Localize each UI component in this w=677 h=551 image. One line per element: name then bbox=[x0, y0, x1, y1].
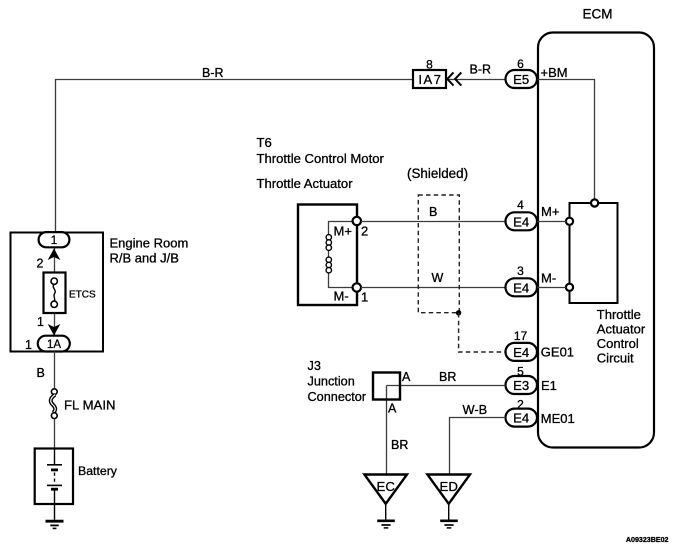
svg-text:W: W bbox=[432, 271, 444, 285]
connector E4 pin4 bbox=[506, 212, 538, 230]
connector oval 1 top bbox=[39, 232, 70, 247]
wire M- internal bbox=[537, 287, 566, 289]
svg-text:GE01: GE01 bbox=[541, 345, 574, 360]
svg-text:ETCS: ETCS bbox=[69, 290, 96, 301]
motor winding wire inside actuator bbox=[329, 222, 353, 288]
svg-text:1: 1 bbox=[51, 235, 57, 247]
arrow up bbox=[48, 249, 61, 261]
ground battery symbol bbox=[46, 521, 64, 528]
svg-text:B: B bbox=[429, 205, 437, 219]
svg-text:M+: M+ bbox=[541, 204, 559, 219]
throttle actuator box T6 bbox=[298, 205, 357, 306]
svg-text:ThrottleActuatorControlCircuit: ThrottleActuatorControlCircuit bbox=[597, 307, 646, 366]
fusible link FL MAIN bbox=[51, 389, 57, 419]
connector E4 pin17 bbox=[506, 343, 538, 361]
svg-text:17: 17 bbox=[514, 329, 528, 343]
svg-text:J3JunctionConnector: J3JunctionConnector bbox=[308, 359, 367, 404]
svg-text:1: 1 bbox=[361, 290, 368, 305]
terminal circle M- on control circuit box bbox=[566, 284, 573, 291]
ground ED symbol bbox=[440, 504, 458, 528]
svg-text:BR: BR bbox=[439, 370, 456, 384]
svg-text:T6Throttle Control Motor: T6Throttle Control Motor bbox=[257, 135, 385, 166]
svg-text:E5: E5 bbox=[513, 72, 529, 87]
svg-text:B-R: B-R bbox=[202, 66, 224, 80]
ground EC triangle bbox=[364, 475, 407, 504]
svg-text:ECM: ECM bbox=[583, 7, 613, 22]
svg-text:ED: ED bbox=[440, 479, 458, 494]
svg-text:1: 1 bbox=[37, 315, 44, 329]
terminal circle M+ on control circuit box bbox=[566, 218, 573, 225]
wire BR (J3 to E3) bbox=[387, 385, 506, 387]
battery cell symbol bbox=[47, 449, 62, 520]
wire A (J3 down to EC) bbox=[386, 386, 388, 475]
battery box bbox=[35, 449, 73, 505]
svg-text:4: 4 bbox=[517, 198, 524, 212]
svg-text:(Shielded): (Shielded) bbox=[407, 166, 468, 181]
svg-text:B: B bbox=[37, 366, 45, 380]
terminal 1 circle on actuator bbox=[353, 283, 361, 291]
ground ED triangle bbox=[427, 475, 470, 504]
svg-text:E4: E4 bbox=[513, 411, 529, 426]
engine room junction block box bbox=[11, 233, 104, 352]
shield drain dashed wire bbox=[459, 313, 506, 352]
wire FL MAIN to battery bbox=[54, 419, 56, 449]
shield junction dot bbox=[456, 310, 461, 315]
svg-text:E4: E4 bbox=[513, 345, 529, 360]
wire +BM internal bbox=[538, 80, 595, 200]
wire W-B (ED to E4) bbox=[450, 418, 506, 475]
connector E5 bbox=[506, 70, 538, 88]
svg-text:IA7: IA7 bbox=[418, 72, 442, 87]
wire M+ internal bbox=[537, 221, 566, 223]
shield dashed box bbox=[418, 195, 459, 313]
connector E3 pin5 bbox=[506, 376, 538, 394]
wire B (1A to FL MAIN) bbox=[54, 352, 56, 390]
terminal circle on top of control circuit box bbox=[591, 199, 598, 206]
connector oval 1A bbox=[38, 336, 70, 352]
svg-text:+BM: +BM bbox=[541, 65, 568, 80]
svg-text:2: 2 bbox=[37, 257, 44, 271]
svg-text:3: 3 bbox=[517, 264, 524, 278]
svg-text:EC: EC bbox=[377, 479, 396, 494]
svg-text:A: A bbox=[388, 402, 397, 416]
connector E4 pin3 bbox=[506, 278, 538, 296]
motor coil M1 bbox=[326, 235, 331, 273]
connector chevrons (male connector marks) bbox=[447, 72, 461, 85]
ECM box bbox=[538, 33, 654, 448]
svg-text:E1: E1 bbox=[541, 378, 557, 393]
svg-text:M+: M+ bbox=[334, 224, 352, 239]
svg-text:M-: M- bbox=[541, 271, 556, 286]
svg-text:M-: M- bbox=[334, 289, 349, 304]
wire B (actuator pin2 to E4) bbox=[361, 221, 506, 223]
svg-text:A: A bbox=[402, 370, 411, 384]
svg-text:BR: BR bbox=[391, 438, 408, 452]
svg-text:Engine RoomR/B and J/B: Engine RoomR/B and J/B bbox=[110, 236, 189, 266]
svg-text:1A: 1A bbox=[47, 339, 61, 351]
wire W (actuator pin1 to E4) bbox=[361, 287, 506, 289]
svg-text:ME01: ME01 bbox=[541, 411, 575, 426]
arrow down bbox=[48, 324, 61, 336]
wire B-R main horizontal (battery to IA7) bbox=[56, 80, 414, 233]
ground EC symbol bbox=[377, 504, 395, 528]
svg-text:E4: E4 bbox=[513, 214, 529, 229]
throttle actuator control circuit box U1 bbox=[570, 203, 618, 303]
fuse ETCS bbox=[44, 273, 66, 314]
svg-text:Throttle Actuator: Throttle Actuator bbox=[257, 176, 354, 191]
connector E4 pin2 bbox=[506, 409, 538, 427]
svg-text:1: 1 bbox=[25, 338, 32, 352]
svg-text:A09323BE02: A09323BE02 bbox=[626, 536, 669, 544]
wire inside engine room block bbox=[54, 247, 56, 336]
connector IA7 bbox=[413, 70, 446, 88]
svg-text:E3: E3 bbox=[513, 378, 529, 393]
junction connector J3 square bbox=[373, 373, 400, 400]
svg-text:E4: E4 bbox=[513, 280, 529, 295]
svg-text:2: 2 bbox=[361, 224, 368, 239]
svg-text:W-B: W-B bbox=[463, 402, 488, 417]
svg-text:FL MAIN: FL MAIN bbox=[64, 398, 116, 413]
terminal 2 circle on actuator bbox=[353, 217, 361, 225]
svg-text:B-R: B-R bbox=[470, 63, 492, 77]
svg-text:Battery: Battery bbox=[78, 464, 118, 478]
wire B-R (IA7 to E5) bbox=[446, 79, 506, 81]
